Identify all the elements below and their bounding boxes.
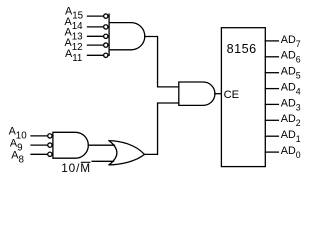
inverter bubble A9 <box>48 143 52 147</box>
svg-text:8156: 8156 <box>227 42 257 56</box>
IC U5 8156 body <box>221 28 265 167</box>
inverter bubble A11 <box>104 53 108 57</box>
svg-text:CE: CE <box>224 89 240 101</box>
pin AD6 wire <box>265 56 278 58</box>
wire A11 <box>88 54 104 56</box>
wire A15 <box>88 15 104 17</box>
pin AD2 wire <box>265 119 278 121</box>
AND gate U4 (chip-enable gate) <box>179 82 215 105</box>
pin AD0 wire <box>265 151 278 153</box>
pin AD3 wire <box>265 103 278 105</box>
wire A14 <box>88 26 104 28</box>
pin AD7 wire <box>265 40 278 42</box>
inverter bubble A10 <box>48 134 52 138</box>
wire A9 <box>31 144 48 146</box>
pin AD5 wire <box>265 72 278 74</box>
wire A10 <box>31 135 48 137</box>
wire A12 <box>88 44 104 46</box>
wire IO/M to OR gate input <box>92 160 113 162</box>
overbar of IO/M <box>81 161 91 163</box>
OR gate U3 <box>109 141 145 165</box>
wire U2 output to OR gate input <box>88 144 114 146</box>
AND gate U1 (A15-A11 decoder) <box>109 14 145 55</box>
inverter bubble A13 <box>104 34 108 38</box>
inverter bubble A14 <box>104 25 108 29</box>
inverter bubble A8 <box>48 152 52 156</box>
pin AD1 wire <box>265 135 278 137</box>
wire A13 <box>88 35 104 37</box>
wire U3 output to U4 bottom input <box>145 103 179 154</box>
svg-text:10/M: 10/M <box>61 161 91 175</box>
pin AD4 wire <box>265 88 278 90</box>
wire U4 output to CE pin <box>215 93 222 95</box>
wire U1 output to U4 top input <box>145 37 179 87</box>
wire A8 <box>31 153 48 155</box>
AND gate U2 (A10-A8 decoder) <box>53 132 88 158</box>
inverter bubble A15 <box>104 14 108 18</box>
inverter bubble A12 <box>104 43 108 47</box>
